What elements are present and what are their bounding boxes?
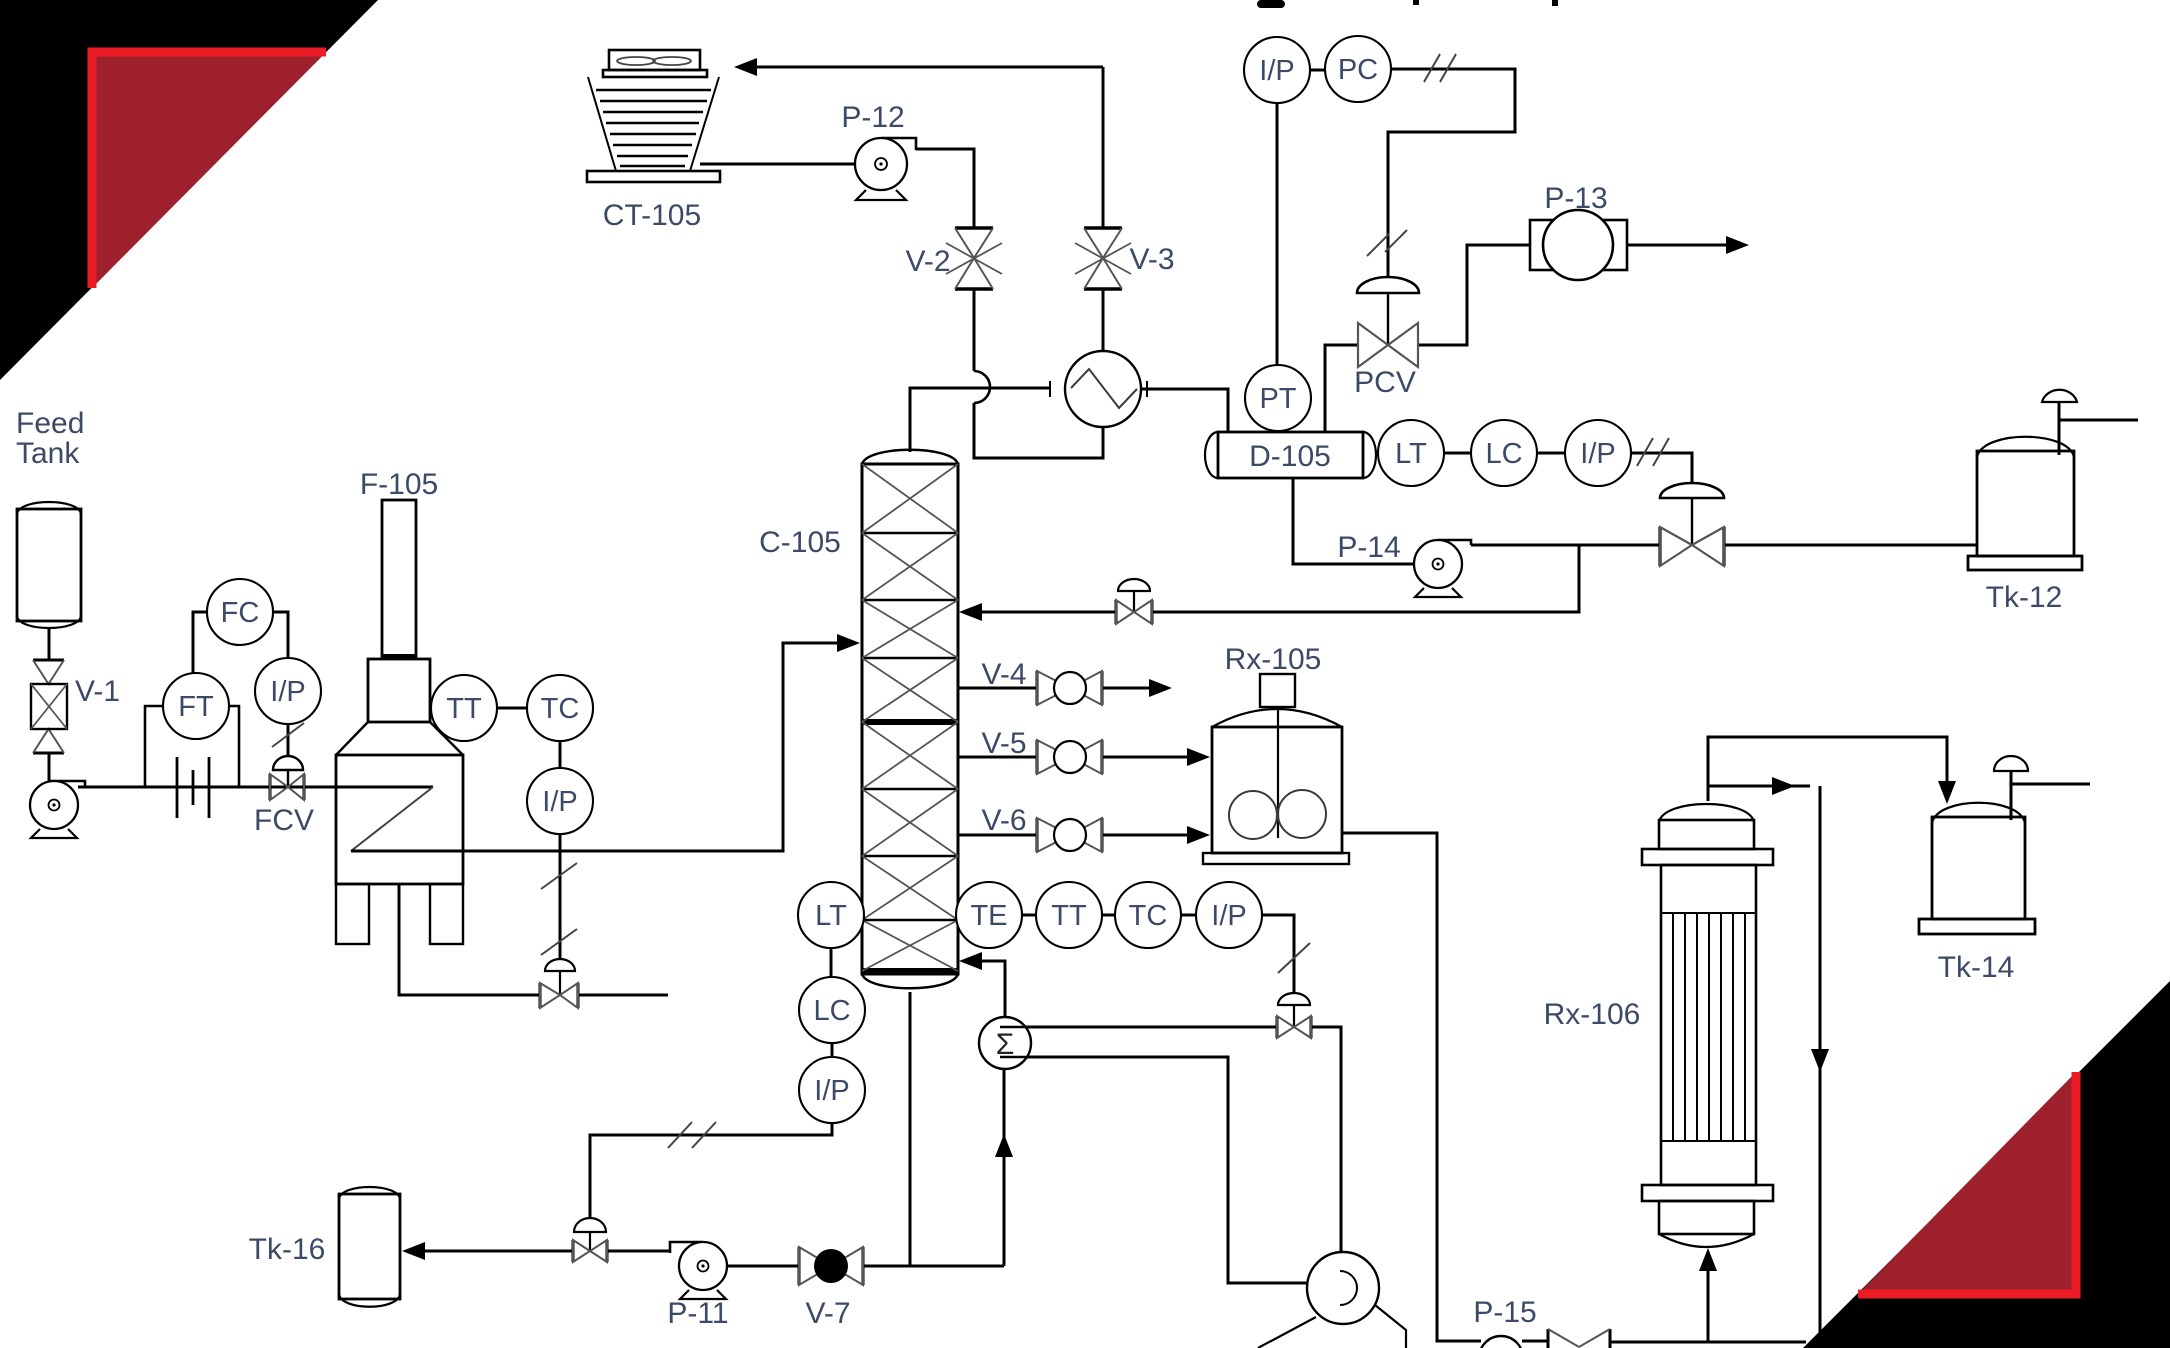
orifice plate: [177, 757, 209, 818]
arrow on recycle branch: [1772, 777, 1795, 795]
feed pump: [30, 781, 85, 838]
steam control valve (TE loop): [1277, 993, 1311, 1038]
arrow reflux into C-105: [959, 603, 982, 621]
arrow V-4 outlet: [1149, 679, 1172, 697]
wire: Tk-16 valve to tank (arrow): [408, 1250, 573, 1253]
slash marks on bottoms valve signal: [541, 863, 577, 955]
pump P-12: [855, 138, 916, 200]
wire: FCV to F-105: [304, 786, 336, 789]
svg-text:F-105: F-105: [360, 468, 438, 501]
instrument LC (drum): [1471, 420, 1537, 486]
wire: branch up into Rx-106 bottom (arrow): [1707, 1262, 1710, 1342]
wire: riser to totalizer (arrow up): [1003, 1069, 1006, 1266]
instrument TC (column): [1115, 882, 1181, 948]
svg-text:LT: LT: [815, 900, 847, 932]
corner decoration: top-left red triangle: [92, 52, 326, 288]
wire: Rx-106 overhead to Tk-14: [1708, 737, 1947, 801]
arrow feed into C-105: [837, 634, 860, 652]
wire: V-1 to feed pump: [48, 753, 51, 785]
Tk-16 inlet control valve: [573, 1218, 607, 1262]
pressure control valve PCV: [1357, 277, 1419, 367]
flow control valve FCV: [270, 756, 304, 800]
wire: orifice to FCV: [220, 786, 270, 789]
svg-text:LT: LT: [1395, 438, 1427, 470]
circulation pump (crescent): [1258, 1252, 1406, 1348]
signal: TC-I/P link: [1180, 914, 1197, 917]
signal: LT down to LC: [830, 947, 833, 978]
drum D-105: [1205, 432, 1376, 478]
valve V-3: [1075, 228, 1131, 289]
instrument LT (drum): [1378, 420, 1444, 486]
reflux inline valve: [1116, 579, 1152, 624]
svg-text:TE: TE: [970, 900, 1007, 932]
wire: V-4 outlet (arrow): [1102, 687, 1160, 690]
slash marks on level signal: [1637, 438, 1669, 466]
pump P-15 (partially cropped): [1472, 1336, 1523, 1348]
reactor Rx-105: [1203, 674, 1349, 864]
wire: condenser top stub to V-3: [1102, 290, 1105, 351]
instrument LT (column): [798, 882, 864, 948]
slash marks on PC signal: [1367, 54, 1456, 256]
arrow into Rx-106 bottom: [1699, 1248, 1717, 1271]
arrow into C-105 bottom side: [959, 952, 982, 970]
column C-105: [862, 450, 958, 989]
svg-text:I/P: I/P: [814, 1075, 849, 1107]
svg-text:D-105: D-105: [1249, 440, 1331, 473]
svg-text:Tk-14: Tk-14: [1938, 951, 2015, 984]
svg-text:Rx-106: Rx-106: [1544, 998, 1641, 1031]
wire: P-11 discharge through V-7: [727, 1265, 910, 1268]
svg-text:LC: LC: [1485, 438, 1522, 470]
wire: P-12 discharge to V-2: [916, 149, 974, 228]
tank Tk-14: [1919, 756, 2035, 934]
signal: I/P down to FCV with slash: [287, 724, 290, 756]
instrument I/P (pressure loop): [1244, 37, 1310, 103]
wire: furnace coil inlet run: [336, 786, 433, 789]
svg-text:Tk-16: Tk-16: [249, 1233, 326, 1266]
signal: FT up to FC: [193, 612, 207, 673]
signal: TC down to I/P: [559, 740, 562, 769]
wire: recycle downcomer to bottom header: [1819, 786, 1822, 1342]
signal: totalizer bottom line to circulation pump: [998, 1057, 1336, 1283]
svg-text:V-6: V-6: [981, 804, 1026, 837]
slash marks on Tk-16 valve signal: [668, 1122, 716, 1148]
signal: LT-LC link: [1443, 452, 1472, 455]
arrow P-13 discharge: [1726, 236, 1749, 254]
signal: FC to I/P: [273, 612, 288, 658]
signal: I/P to bottoms valve with slashes: [559, 833, 562, 960]
svg-text:I/P: I/P: [1211, 900, 1246, 932]
valve V-2: [946, 228, 1002, 289]
signal: LC-I/P link: [1536, 452, 1566, 455]
svg-text:TC: TC: [1129, 900, 1168, 932]
arrow into Tk-14: [1938, 781, 1956, 804]
cropped title remnants at top edge: [1257, 0, 1558, 8]
svg-text:PCV: PCV: [1354, 366, 1416, 399]
instrument I/P (column level loop): [799, 1057, 865, 1123]
wire: P-14 discharge header: [1471, 544, 1660, 547]
wire: Rx-105 outlet down to P-15: [1342, 833, 1481, 1341]
wire: feed pump discharge to orifice run: [78, 786, 433, 789]
signal: totalizer top line to steam valve: [998, 1026, 1277, 1029]
arrow on recycle downcomer: [1811, 1049, 1829, 1072]
svg-text:LC: LC: [813, 995, 850, 1027]
instrument LC (column): [799, 977, 865, 1043]
wire: V-6 to Rx-105 (arrow): [1102, 834, 1198, 837]
tank Tk-16: [339, 1187, 400, 1307]
wire: P-15 discharge line: [1522, 1341, 1806, 1342]
arrow on totalizer riser: [995, 1134, 1013, 1157]
instrument I/P (flow loop): [255, 658, 321, 724]
instrument TE (column): [956, 882, 1022, 948]
wire: overhead vapor line C-105 to condenser: [910, 388, 1050, 452]
wire: P-13 discharge (arrow): [1627, 244, 1738, 247]
wire: Rx-106 recycle branch (arrow right): [1708, 785, 1810, 788]
svg-text:TC: TC: [541, 693, 580, 725]
signal: LC down to I/P: [831, 1042, 834, 1058]
svg-text:I/P: I/P: [1259, 55, 1294, 87]
P-15 discharge valve (cropped): [1548, 1329, 1610, 1348]
valve V-5: [1037, 740, 1102, 774]
svg-text:FT: FT: [178, 691, 214, 723]
svg-text:Σ: Σ: [996, 1028, 1015, 1061]
svg-text:P-12: P-12: [841, 101, 904, 134]
control valve to Tk-12: [1660, 483, 1724, 566]
wire: C-105 side draw V-6: [958, 834, 1037, 837]
svg-text:CT-105: CT-105: [603, 199, 701, 232]
wire: totalizer up to C-105 (arrow): [963, 961, 1005, 1017]
svg-text:V-2: V-2: [905, 245, 950, 278]
signal: TE-TT link: [1021, 914, 1037, 917]
wire: CT-105 basin outlet to P-12 suction: [700, 163, 858, 166]
instrument I/P (furnace loop): [527, 768, 593, 834]
instrument TT (column): [1036, 882, 1102, 948]
slash on FCV signal: [272, 723, 304, 747]
wire: reflux valve to C-105 (arrow): [963, 611, 1116, 614]
svg-text:I/P: I/P: [542, 786, 577, 818]
wire: Tk-12 vent line: [2059, 402, 2138, 455]
pump P-14: [1414, 540, 1471, 597]
svg-text:P-14: P-14: [1337, 531, 1400, 564]
svg-text:TT: TT: [1051, 900, 1087, 932]
instrument TT (furnace): [431, 675, 497, 741]
svg-text:PT: PT: [1259, 383, 1296, 415]
wire: condenser outlet to D-105: [1141, 389, 1228, 432]
wire: hop down and over to condenser bottom stub: [974, 403, 1103, 458]
furnace F-105: [336, 500, 463, 944]
svg-text:V-7: V-7: [805, 1297, 850, 1330]
svg-text:Tank: Tank: [16, 437, 80, 470]
valve V-6: [1037, 818, 1102, 852]
wire: steam valve to circulation pump top: [1311, 1027, 1341, 1252]
wire: crossover hop over condensate line: [974, 371, 990, 403]
wire: C-105 bottom outlet down: [909, 992, 912, 1266]
wire: control valve to Tk-12: [1724, 544, 1977, 547]
svg-text:Feed: Feed: [16, 407, 84, 440]
instrument I/P (column temp loop): [1196, 882, 1262, 948]
svg-text:V-5: V-5: [981, 727, 1026, 760]
wire: D-105 bottoms to P-14 suction: [1293, 478, 1414, 564]
instrument FT: [163, 673, 229, 739]
instrument FC: [207, 579, 273, 645]
valve V-4: [1037, 671, 1102, 705]
feed tank: [17, 502, 81, 628]
signal: TT-TC link: [1101, 914, 1116, 917]
svg-text:FC: FC: [221, 597, 260, 629]
svg-text:V-3: V-3: [1129, 243, 1174, 276]
instrument PC: [1325, 36, 1391, 102]
svg-text:P-11: P-11: [667, 1297, 728, 1330]
wire: PCV outlet up to P-13 suction: [1418, 245, 1530, 345]
wire: feed tank to V-1: [48, 629, 51, 660]
svg-text:V-1: V-1: [75, 675, 120, 708]
totalizer sigma: [979, 1017, 1032, 1069]
cooling tower CT-105: [587, 50, 720, 182]
wire: C-105 side draw V-5: [958, 756, 1037, 759]
instrument TC (furnace): [527, 675, 593, 741]
slash on steam valve signal: [1278, 943, 1310, 973]
svg-text:Tk-12: Tk-12: [1986, 581, 2063, 614]
pump P-13 (inline): [1530, 210, 1627, 280]
wire: F-105 bottoms drain through valve: [399, 884, 668, 995]
valve V-1: [31, 660, 67, 753]
svg-text:TT: TT: [446, 693, 482, 725]
arrow into CT-105: [734, 58, 757, 76]
tank Tk-12: [1968, 390, 2082, 570]
instrument I/P (drum level loop): [1565, 420, 1631, 486]
svg-text:P-13: P-13: [1544, 182, 1607, 215]
svg-text:I/P: I/P: [1580, 438, 1615, 470]
signal: FT taps around orifice: [145, 706, 239, 787]
instrument PT: [1245, 365, 1311, 431]
wire: furnace coil outlet to riser: [351, 643, 845, 851]
condenser heat exchanger: [1050, 351, 1147, 427]
reactor Rx-106: [1642, 804, 1773, 1247]
signal: PC to PCV pneumatic line with slashes: [1388, 69, 1515, 278]
arrow V-6 into Rx-105: [1187, 826, 1210, 844]
svg-text:FCV: FCV: [254, 804, 314, 837]
svg-text:I/P: I/P: [270, 676, 305, 708]
wire: V-2 down to crossover hop: [973, 290, 976, 371]
wire: bottoms header to totalizer riser: [910, 1265, 1004, 1268]
wire: C-105 side draw V-4: [958, 687, 1037, 690]
arrow V-5 into Rx-105: [1187, 748, 1210, 766]
signal: I/P to Tk-16 valve with slashes: [590, 1122, 832, 1217]
signal: PT to I/P vertical: [1276, 103, 1279, 366]
svg-text:Rx-105: Rx-105: [1225, 643, 1322, 676]
svg-text:C-105: C-105: [759, 526, 841, 559]
wire: D-105 inlet riser from PCV branch: [1325, 345, 1358, 432]
corner decoration: top-left black triangle: [0, 0, 378, 380]
signal: I/P to Tk-12 control valve with slashes: [1631, 453, 1692, 483]
corner decoration: bottom-right black triangle: [1803, 981, 2170, 1348]
svg-text:P-15: P-15: [1473, 1296, 1536, 1329]
F-105 bottoms valve: [540, 959, 578, 1008]
corner decoration: bottom-right red triangle: [1858, 1072, 2076, 1294]
wire: Tk-16 valve to P-11 suction: [607, 1250, 670, 1253]
arrow into Tk-16: [402, 1242, 425, 1260]
signal: I/P to steam valve with slash: [1261, 915, 1294, 994]
svg-text:PC: PC: [1338, 54, 1378, 86]
wire: top return line to cooling tower (arrow): [753, 66, 1103, 69]
signal: TT to TC link: [496, 707, 528, 710]
svg-text:V-4: V-4: [981, 658, 1026, 691]
wire: Tk-14 vent line: [2011, 771, 2090, 820]
valve V-7 (black ball): [799, 1247, 863, 1285]
wire: reflux branch down from header: [1152, 545, 1579, 612]
wire: V-3 riser to top return line: [1102, 67, 1105, 228]
coil diagonal inside F-105: [351, 787, 433, 851]
pump P-11: [670, 1242, 727, 1299]
signal: I/P to PC link: [1310, 69, 1325, 72]
wire: V-5 to Rx-105 (arrow): [1102, 756, 1198, 759]
